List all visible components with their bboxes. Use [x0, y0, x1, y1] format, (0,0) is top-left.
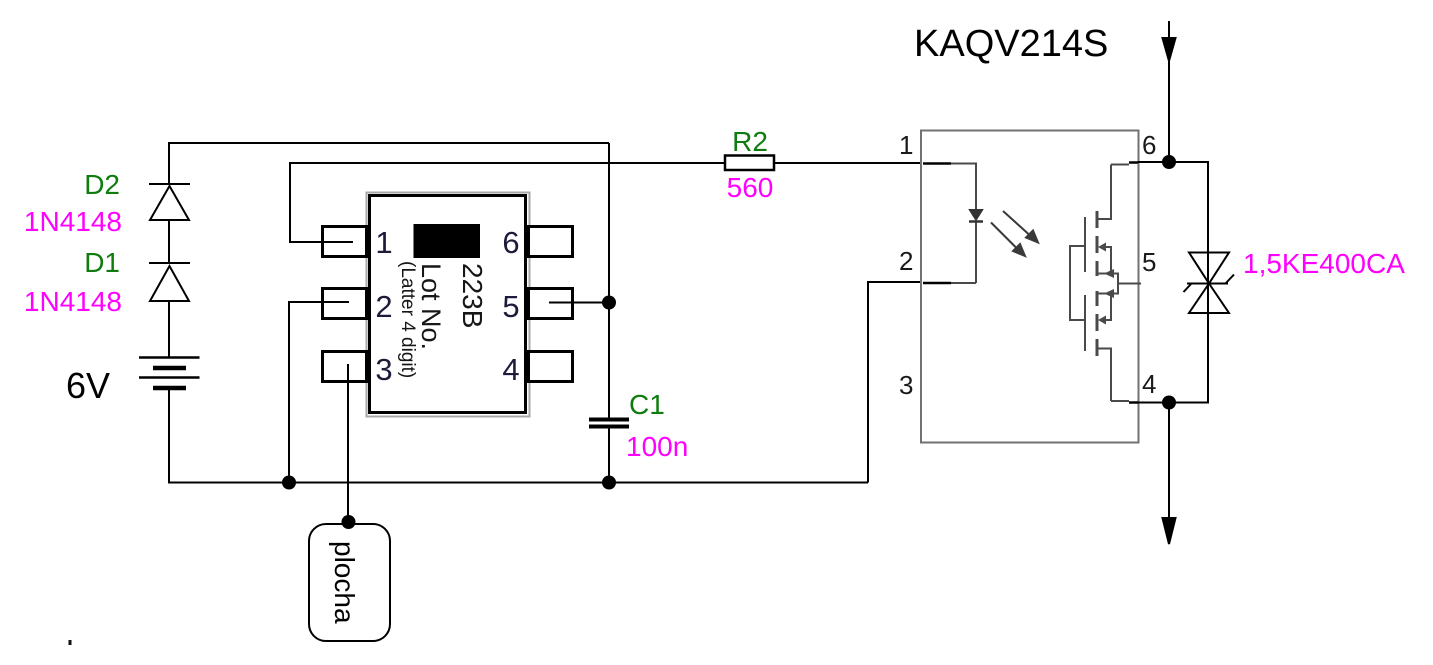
opto pin4 stub	[1129, 401, 1138, 404]
top drain path	[1097, 165, 1111, 220]
svg-text:C1: C1	[629, 389, 665, 420]
pin5 tap	[1118, 283, 1141, 285]
wire R2 to optocoupler pin1	[775, 162, 923, 164]
wire opto pin4 to TVS bottom	[1138, 313, 1208, 403]
svg-text:1N4148: 1N4148	[24, 286, 122, 317]
top channel dashes	[1096, 211, 1099, 276]
opto internal LED wiring	[923, 164, 976, 284]
opto MOSFET pair	[1070, 165, 1141, 402]
wire ground rail up to optocoupler pin2	[868, 282, 923, 483]
node junction pin6	[1162, 155, 1176, 169]
svg-text:100n: 100n	[626, 431, 688, 462]
svg-text:2: 2	[375, 289, 392, 324]
diode D2	[149, 184, 190, 263]
bottom drain path	[1097, 349, 1111, 402]
svg-text:6: 6	[502, 225, 519, 260]
node junction pin5/C1	[602, 296, 616, 310]
bottom channel dashes	[1096, 291, 1099, 356]
gate tie loop	[1070, 246, 1085, 320]
IC pin 1 stub	[323, 227, 367, 257]
svg-text:6: 6	[1142, 130, 1156, 160]
wire battery top to node over IC	[169, 143, 609, 184]
IC pin 3 stub	[323, 352, 367, 382]
svg-text:1: 1	[899, 130, 913, 160]
plocha terminal box	[309, 524, 390, 641]
opto light arrow b	[991, 223, 1025, 257]
diode D1	[149, 263, 190, 357]
svg-text:4: 4	[1142, 369, 1156, 399]
svg-text:5: 5	[502, 289, 519, 324]
wire IC pin1 to R2 row	[290, 163, 724, 242]
TVS diode 1,5KE400CA	[1184, 162, 1235, 402]
terminal arrow top	[1163, 21, 1176, 162]
IC U1 body outer shade	[367, 193, 530, 417]
svg-text:KAQV214S: KAQV214S	[914, 23, 1108, 65]
wire stub tail pin5	[549, 302, 572, 304]
wire IC pin3 to plocha	[347, 364, 349, 521]
top gate bar	[1084, 217, 1086, 272]
opto body arrows	[1098, 243, 1114, 325]
svg-text:1,5KE400CA: 1,5KE400CA	[1243, 248, 1405, 279]
svg-text:223B: 223B	[457, 263, 488, 328]
svg-text:3: 3	[375, 352, 392, 387]
svg-text:560: 560	[727, 172, 774, 203]
IC pin 5 stub	[529, 289, 573, 319]
node junction plocha	[342, 515, 356, 529]
svg-text:3: 3	[899, 370, 913, 400]
IC U1 body	[370, 196, 526, 413]
svg-text:Lot No.: Lot No.	[416, 263, 446, 350]
wire IC pin5 to node	[549, 302, 609, 304]
stray ink mark bottom left	[69, 640, 72, 645]
optocoupler U2 body	[921, 131, 1139, 443]
wire node to IC pin5 / C1 branch	[608, 143, 610, 418]
opto pin6 stub	[1129, 161, 1138, 164]
svg-text:R2: R2	[732, 126, 768, 157]
capacitor C1	[589, 420, 629, 483]
bottom gate bar	[1084, 295, 1086, 351]
wire battery bottom to ground rail	[169, 390, 868, 483]
svg-text:2: 2	[899, 246, 913, 276]
svg-text:5: 5	[1142, 247, 1156, 277]
wire stub tail pin3	[347, 364, 349, 381]
node junction pin4	[1162, 396, 1176, 410]
wire stub tail pin1	[324, 241, 353, 243]
svg-text:D2: D2	[84, 169, 120, 200]
terminal arrow bottom	[1163, 403, 1176, 545]
battery 6V	[139, 358, 200, 389]
IC pin 4 stub	[529, 352, 573, 382]
resistor R2	[725, 156, 774, 171]
bottom body tap	[1106, 294, 1111, 320]
svg-text:6V: 6V	[66, 365, 110, 406]
wire opto pin6 to TVS top	[1138, 162, 1208, 252]
svg-text:D1: D1	[84, 247, 120, 278]
opto light arrow a	[1003, 211, 1038, 243]
svg-text:(Latter 4 digit): (Latter 4 digit)	[397, 261, 418, 378]
svg-text:1: 1	[375, 225, 392, 260]
node junction ground at pin2 drop	[282, 476, 296, 490]
svg-text:plocha: plocha	[329, 541, 360, 624]
IC pin 2 stub	[323, 289, 367, 319]
IC marking bar	[414, 224, 481, 258]
opto internal LED	[969, 210, 983, 222]
top source line	[1097, 274, 1118, 294]
wire IC pin2 to ground rail	[289, 302, 349, 483]
svg-text:1N4148: 1N4148	[24, 206, 122, 237]
svg-text:4: 4	[502, 352, 519, 387]
top body tap	[1106, 247, 1111, 273]
IC pin 6 stub	[529, 227, 573, 257]
wire stub tail pin2	[324, 301, 349, 303]
node junction ground at C1	[602, 476, 616, 490]
